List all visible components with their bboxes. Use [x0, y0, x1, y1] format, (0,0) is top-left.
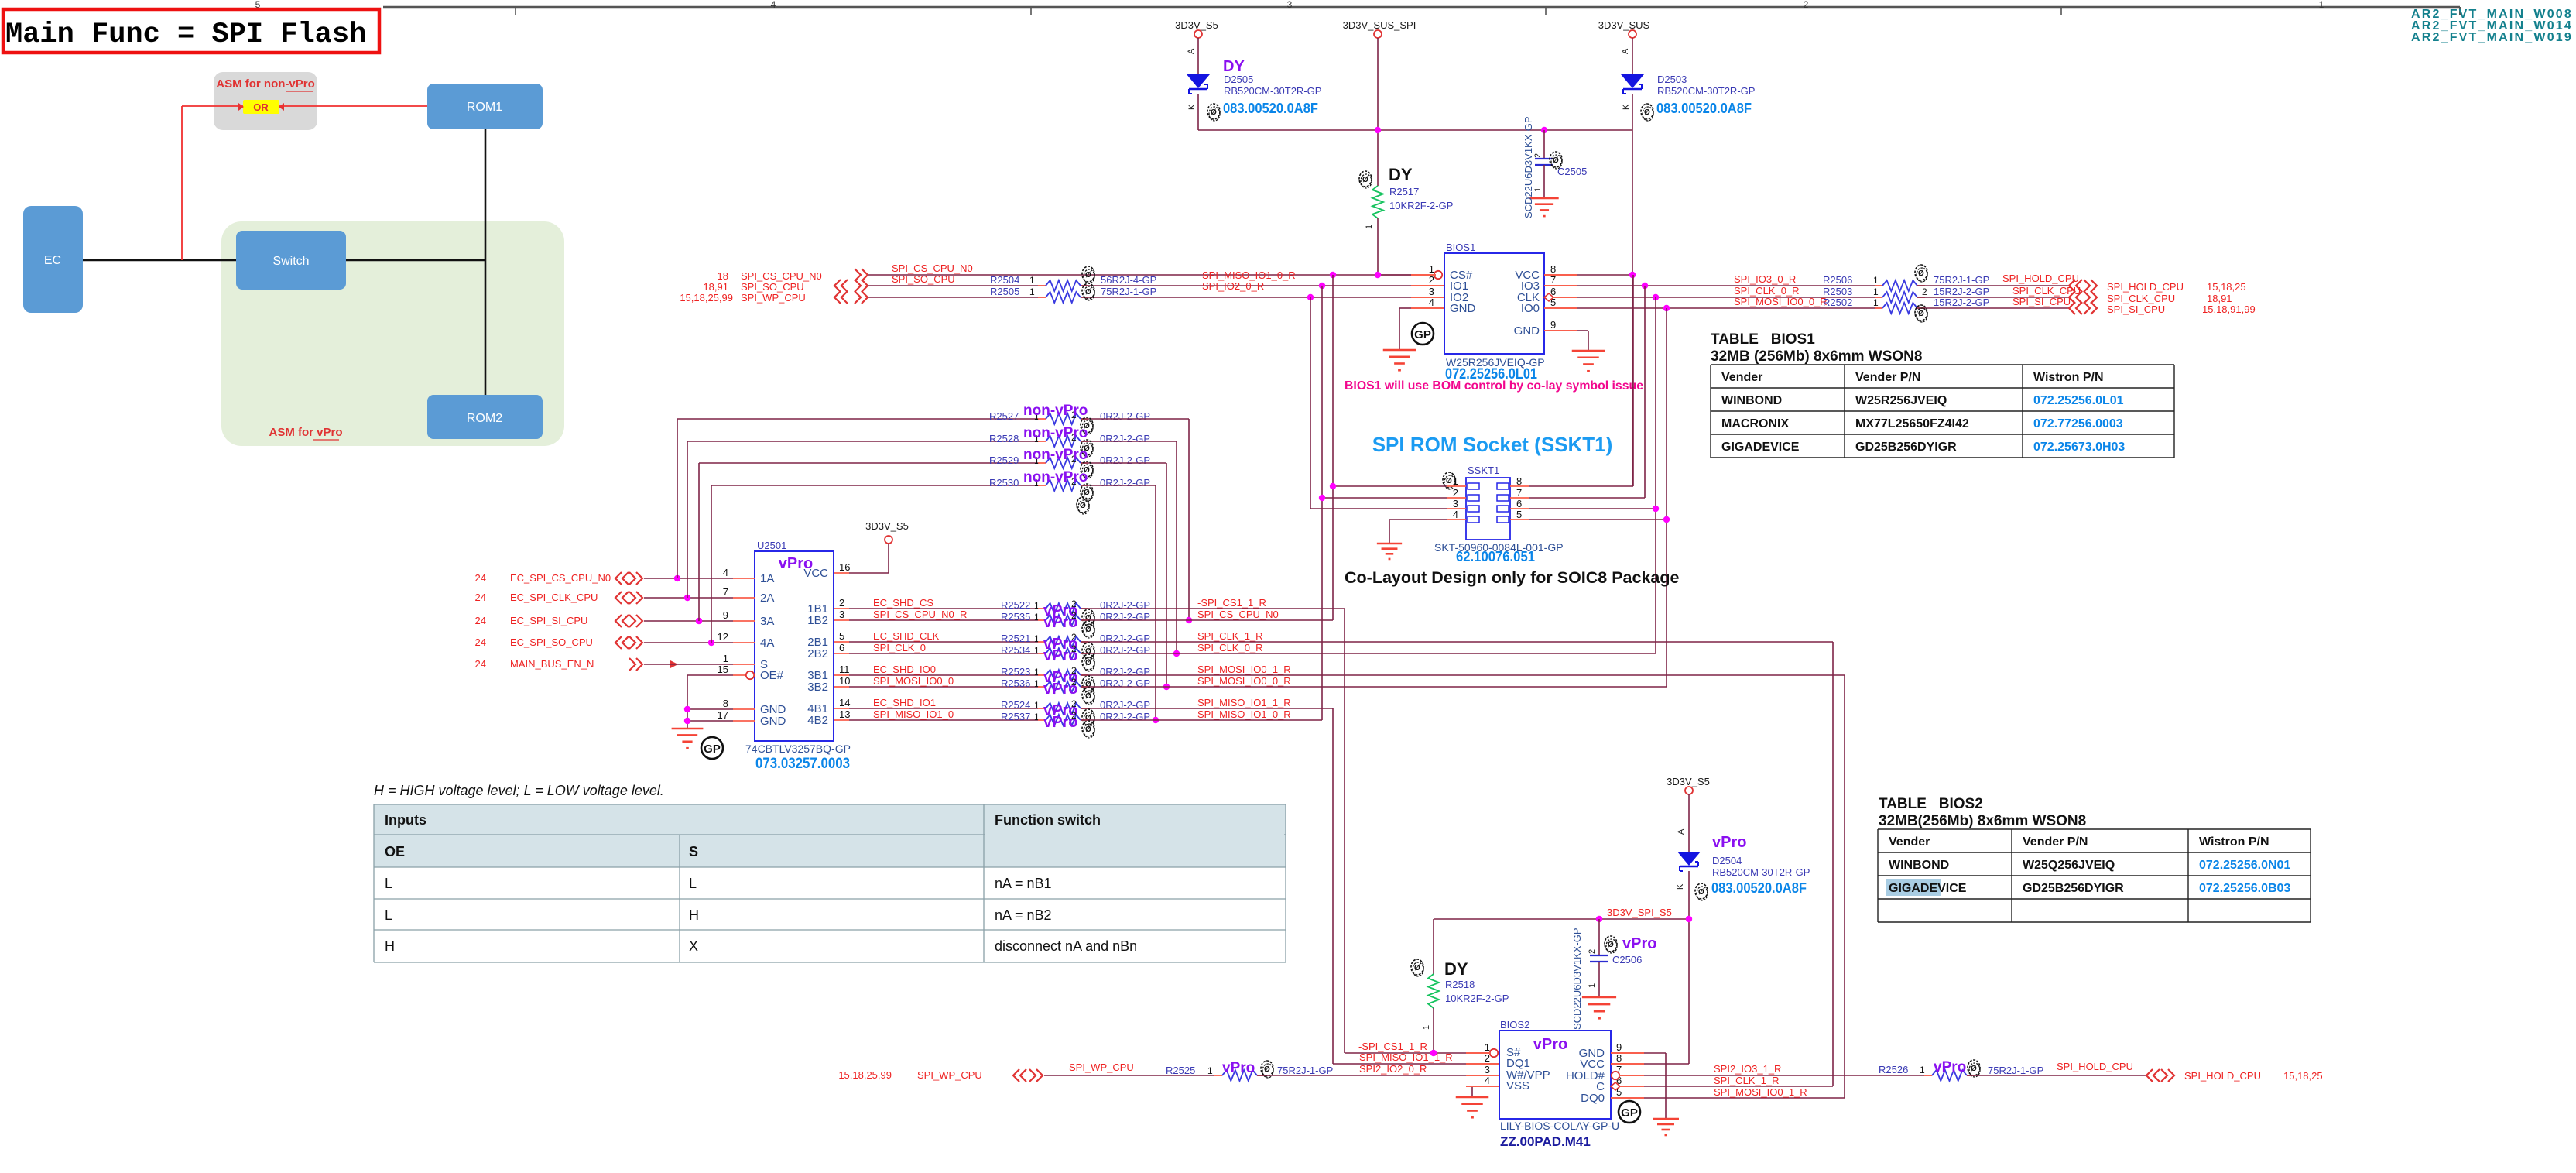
svg-text:R2525: R2525 [1166, 1065, 1195, 1076]
svg-text:Ø: Ø [1264, 1065, 1270, 1074]
svg-text:Vender: Vender [1721, 371, 1762, 384]
svg-text:EC_SHD_IO1: EC_SHD_IO1 [873, 697, 936, 708]
svg-text:072.25256.0L01: 072.25256.0L01 [2033, 394, 2124, 407]
svg-text:SPI_HOLD_CPU: SPI_HOLD_CPU [2107, 281, 2184, 293]
svg-text:SSKT1: SSKT1 [1468, 465, 1499, 476]
svg-text:24: 24 [475, 615, 486, 626]
svg-text:nA = nB2: nA = nB2 [995, 907, 1052, 923]
svg-text:9: 9 [1616, 1041, 1622, 1053]
svg-text:SPI ROM Socket (SSKT1): SPI ROM Socket (SSKT1) [1372, 433, 1613, 456]
svg-text:15,18,25: 15,18,25 [2283, 1070, 2323, 1082]
svg-text:OE: OE [385, 844, 405, 859]
svg-text:VSS: VSS [1506, 1079, 1529, 1092]
svg-text:Ø: Ø [1362, 176, 1368, 184]
svg-text:15,18,25: 15,18,25 [2207, 281, 2246, 293]
svg-text:H: H [385, 938, 395, 954]
svg-text:SPI_SI_CPU: SPI_SI_CPU [2012, 296, 2071, 307]
svg-text:non-vPro: non-vPro [1023, 447, 1088, 463]
svg-text:8: 8 [723, 698, 728, 709]
svg-text:SPI_CLK_0: SPI_CLK_0 [873, 642, 926, 653]
svg-text:BIOS1: BIOS1 [1446, 242, 1475, 253]
svg-text:R2534: R2534 [1001, 644, 1030, 656]
svg-text:R2537: R2537 [1001, 711, 1030, 722]
svg-text:R2521: R2521 [1001, 633, 1030, 644]
svg-text:Co-Layout Design only for SOIC: Co-Layout Design only for SOIC8 Package [1345, 568, 1680, 587]
svg-text:EC: EC [44, 254, 61, 267]
svg-text:2: 2 [1922, 286, 1927, 297]
svg-text:vPro: vPro [1043, 614, 1077, 631]
svg-text:RB520CM-30T2R-GP: RB520CM-30T2R-GP [1657, 85, 1755, 97]
svg-text:15: 15 [718, 664, 728, 675]
svg-text:4A: 4A [760, 636, 774, 650]
svg-text:D2505: D2505 [1224, 74, 1253, 85]
svg-text:ASM for non-vPro: ASM for non-vPro [216, 77, 315, 91]
svg-text:15R2J-2-GP: 15R2J-2-GP [1934, 297, 1989, 308]
svg-text:Ø: Ø [1084, 489, 1090, 497]
svg-text:6: 6 [1516, 498, 1522, 509]
svg-text:1: 1 [1029, 275, 1035, 286]
svg-text:12: 12 [718, 631, 728, 643]
svg-text:1: 1 [1034, 600, 1040, 611]
svg-text:10: 10 [839, 675, 850, 687]
svg-text:Function switch: Function switch [995, 812, 1101, 828]
svg-text:EC_SPI_CLK_CPU: EC_SPI_CLK_CPU [510, 592, 598, 603]
svg-text:1: 1 [1429, 263, 1434, 275]
svg-text:1: 1 [1034, 700, 1040, 711]
svg-text:Ø: Ø [1553, 156, 1559, 165]
svg-text:nA = nB1: nA = nB1 [995, 876, 1052, 891]
svg-text:0R2J-2-GP: 0R2J-2-GP [1100, 477, 1150, 489]
svg-text:R2535: R2535 [1001, 611, 1030, 623]
svg-text:072.25256.0B03: 072.25256.0B03 [2199, 882, 2290, 895]
svg-text:R2505: R2505 [990, 286, 1019, 297]
svg-text:H = HIGH voltage level; L = LO: H = HIGH voltage level; L = LOW voltage … [374, 783, 664, 798]
svg-text:DQ0: DQ0 [1581, 1092, 1605, 1105]
svg-text:8: 8 [1516, 475, 1522, 487]
svg-text:R2517: R2517 [1389, 186, 1419, 197]
svg-text:C2505: C2505 [1557, 166, 1587, 177]
svg-text:SPI_MOSI_IO0_1_R: SPI_MOSI_IO0_1_R [1197, 664, 1291, 675]
svg-text:1: 1 [1873, 297, 1879, 308]
svg-text:vPro: vPro [1533, 1036, 1567, 1053]
svg-text:K: K [1622, 104, 1631, 110]
svg-text:10KR2F-2-GP: 10KR2F-2-GP [1445, 993, 1509, 1004]
svg-text:SPI2_IO2_0_R: SPI2_IO2_0_R [1359, 1063, 1427, 1075]
svg-text:X: X [689, 938, 698, 954]
svg-text:GD25B256DYIGR: GD25B256DYIGR [2023, 882, 2124, 895]
svg-text:R2536: R2536 [1001, 677, 1030, 689]
svg-text:3A: 3A [760, 615, 774, 628]
svg-text:15,18,25,99: 15,18,25,99 [680, 292, 733, 304]
svg-text:14: 14 [839, 697, 850, 708]
svg-text:SPI_CLK_0_R: SPI_CLK_0_R [1734, 285, 1800, 297]
svg-text:072.77256.0003: 072.77256.0003 [2033, 417, 2123, 430]
svg-text:OE#: OE# [760, 669, 784, 682]
svg-text:2: 2 [1804, 0, 1809, 10]
svg-text:1: 1 [1034, 645, 1040, 656]
svg-text:15,18,25,99: 15,18,25,99 [838, 1069, 892, 1081]
svg-text:OR: OR [253, 101, 269, 113]
svg-text:1: 1 [1365, 225, 1374, 229]
svg-text:Wistron P/N: Wistron P/N [2033, 371, 2104, 384]
svg-text:SPI_MISO_IO1_1_R: SPI_MISO_IO1_1_R [1197, 697, 1291, 708]
svg-text:K: K [1187, 104, 1197, 110]
svg-text:24: 24 [475, 592, 486, 603]
svg-text:vPro: vPro [1622, 935, 1656, 952]
svg-text:Wistron P/N: Wistron P/N [2199, 835, 2269, 849]
svg-text:SPI_SO_CPU: SPI_SO_CPU [741, 281, 804, 293]
svg-text:WINBOND: WINBOND [1889, 859, 1949, 872]
svg-text:R2504: R2504 [990, 274, 1019, 286]
svg-text:EC_SHD_CS: EC_SHD_CS [873, 597, 933, 609]
svg-text:Ø: Ø [1918, 310, 1924, 318]
svg-text:1: 1 [1034, 612, 1040, 623]
svg-text:SPI_MISO_IO1_1_R: SPI_MISO_IO1_1_R [1359, 1051, 1453, 1063]
svg-text:1: 1 [1873, 286, 1879, 297]
svg-text:U2501: U2501 [757, 540, 786, 551]
svg-text:32MB(256Mb) 8x6mm WSON8: 32MB(256Mb) 8x6mm WSON8 [1879, 813, 2086, 829]
svg-text:vPro: vPro [1043, 681, 1077, 698]
svg-text:083.00520.0A8F: 083.00520.0A8F [1711, 880, 1807, 896]
svg-text:1: 1 [723, 653, 728, 664]
svg-text:1: 1 [1873, 275, 1879, 286]
svg-text:3: 3 [1485, 1064, 1490, 1075]
svg-text:SPI_WP_CPU: SPI_WP_CPU [1069, 1062, 1134, 1073]
svg-text:Ø: Ø [1085, 659, 1091, 667]
svg-text:1A: 1A [760, 572, 774, 585]
svg-text:vPro: vPro [1934, 1059, 1966, 1075]
svg-text:7: 7 [1550, 274, 1556, 286]
svg-text:1: 1 [1029, 286, 1035, 297]
svg-text:EC_SHD_IO0: EC_SHD_IO0 [873, 664, 936, 675]
svg-text:H: H [689, 907, 699, 923]
svg-text:3D3V_SPI_S5: 3D3V_SPI_S5 [1607, 907, 1672, 918]
svg-text:10KR2F-2-GP: 10KR2F-2-GP [1389, 200, 1453, 211]
svg-text:disconnect nA and nBn: disconnect nA and nBn [995, 938, 1137, 954]
svg-text:3: 3 [839, 609, 844, 620]
svg-text:16: 16 [839, 561, 850, 573]
svg-text:0R2J-2-GP: 0R2J-2-GP [1100, 454, 1150, 466]
svg-text:Ø: Ø [1211, 108, 1217, 117]
svg-text:62.10076.051: 62.10076.051 [1456, 549, 1535, 564]
svg-text:LILY-BIOS-COLAY-GP-U: LILY-BIOS-COLAY-GP-U [1500, 1120, 1619, 1132]
svg-text:072.25256.0N01: 072.25256.0N01 [2199, 859, 2290, 872]
svg-text:0R2J-2-GP: 0R2J-2-GP [1100, 410, 1150, 422]
svg-text:1: 1 [1422, 1025, 1431, 1030]
svg-text:AR2_FVT_MAIN_W019: AR2_FVT_MAIN_W019 [2411, 31, 2573, 44]
svg-text:GP: GP [1621, 1106, 1638, 1120]
svg-text:24: 24 [475, 572, 486, 584]
svg-text:W25R256JVEIQ: W25R256JVEIQ [1855, 394, 1947, 407]
svg-text:073.03257.0003: 073.03257.0003 [755, 756, 850, 772]
svg-text:R2503: R2503 [1823, 286, 1852, 297]
svg-text:8: 8 [1550, 263, 1556, 275]
svg-text:SCD22U6D3V1KX-GP: SCD22U6D3V1KX-GP [1571, 928, 1583, 1031]
svg-text:3: 3 [1429, 286, 1434, 297]
svg-text:Ø: Ø [1698, 888, 1704, 897]
svg-text:9: 9 [723, 609, 728, 621]
svg-text:Ø: Ø [1085, 626, 1091, 634]
svg-text:75R2J-1-GP: 75R2J-1-GP [1934, 274, 1989, 286]
svg-text:MAIN_BUS_EN_N: MAIN_BUS_EN_N [510, 658, 594, 670]
svg-text:3D3V_S5: 3D3V_S5 [865, 520, 909, 532]
svg-text:4: 4 [1485, 1075, 1490, 1086]
svg-text:Inputs: Inputs [385, 812, 426, 828]
svg-text:5: 5 [839, 630, 844, 642]
svg-text:18: 18 [718, 270, 728, 282]
svg-text:083.00520.0A8F: 083.00520.0A8F [1223, 101, 1318, 116]
svg-text:0R2J-2-GP: 0R2J-2-GP [1100, 433, 1150, 444]
svg-text:IO0: IO0 [1521, 302, 1540, 315]
svg-text:SPI_SI_CPU: SPI_SI_CPU [2107, 304, 2165, 315]
svg-text:GIGADEVICE: GIGADEVICE [1721, 441, 1800, 454]
svg-text:SPI_MOSI_IO0_1_R: SPI_MOSI_IO0_1_R [1714, 1086, 1807, 1098]
svg-text:32MB (256Mb) 8x6mm WSON8: 32MB (256Mb) 8x6mm WSON8 [1711, 348, 1922, 365]
svg-text:3D3V_S5: 3D3V_S5 [1175, 19, 1218, 31]
svg-text:8: 8 [1616, 1052, 1622, 1064]
svg-text:SPI_MOSI_IO0_0_R: SPI_MOSI_IO0_0_R [1197, 675, 1291, 687]
svg-text:RB520CM-30T2R-GP: RB520CM-30T2R-GP [1712, 866, 1810, 878]
svg-text:24: 24 [475, 636, 486, 648]
svg-text:A: A [1677, 828, 1686, 835]
svg-text:R2506: R2506 [1823, 274, 1852, 286]
svg-text:C2506: C2506 [1612, 954, 1642, 965]
svg-text:TABLE BIOS2: TABLE BIOS2 [1879, 796, 1983, 812]
svg-text:2: 2 [839, 597, 844, 609]
svg-text:24: 24 [475, 658, 486, 670]
svg-text:1: 1 [1034, 667, 1040, 677]
svg-text:74CBTLV3257BQ-GP: 74CBTLV3257BQ-GP [745, 743, 851, 755]
svg-text:RB520CM-30T2R-GP: RB520CM-30T2R-GP [1224, 85, 1321, 97]
svg-text:SPI_SO_CPU: SPI_SO_CPU [892, 273, 955, 285]
svg-text:R2502: R2502 [1823, 297, 1852, 308]
svg-text:GP: GP [704, 743, 721, 756]
svg-text:Ø: Ø [1446, 477, 1452, 485]
svg-text:18,91: 18,91 [2207, 293, 2232, 304]
svg-text:2: 2 [1533, 153, 1543, 158]
svg-text:5: 5 [1516, 509, 1522, 520]
svg-text:9: 9 [1550, 319, 1556, 331]
svg-text:3B2: 3B2 [807, 681, 828, 694]
svg-text:SPI_CS_CPU_N0: SPI_CS_CPU_N0 [1197, 609, 1279, 620]
svg-text:GND: GND [1450, 302, 1476, 315]
svg-text:EC_SPI_CS_CPU_N0: EC_SPI_CS_CPU_N0 [510, 572, 611, 584]
svg-text:4B2: 4B2 [807, 714, 828, 727]
svg-text:75R2J-1-GP: 75R2J-1-GP [1988, 1065, 2043, 1076]
svg-text:3D3V_S5: 3D3V_S5 [1667, 776, 1710, 787]
svg-text:2: 2 [1453, 487, 1458, 499]
svg-text:15,18,91,99: 15,18,91,99 [2202, 304, 2256, 315]
svg-text:2: 2 [1588, 949, 1597, 954]
svg-text:SPI_CS_CPU_N0: SPI_CS_CPU_N0 [892, 262, 973, 274]
svg-text:Vender P/N: Vender P/N [1855, 371, 1920, 384]
svg-text:Ø: Ø [1971, 1065, 1977, 1073]
svg-text:15R2J-2-GP: 15R2J-2-GP [1934, 286, 1989, 297]
svg-text:SPI_CS_CPU_N0: SPI_CS_CPU_N0 [741, 270, 822, 282]
svg-text:Ø: Ø [1608, 941, 1614, 949]
svg-text:SPI_CLK_1_R: SPI_CLK_1_R [1197, 630, 1263, 642]
svg-text:SPI_MISO_IO1_0_R: SPI_MISO_IO1_0_R [1202, 269, 1296, 281]
svg-text:R2528: R2528 [989, 433, 1019, 444]
svg-text:1: 1 [2319, 0, 2324, 10]
svg-text:2: 2 [1485, 1052, 1490, 1064]
svg-text:vPro: vPro [1222, 1060, 1255, 1076]
svg-text:L: L [385, 876, 392, 891]
svg-text:DY: DY [1444, 959, 1468, 979]
svg-text:3: 3 [1287, 0, 1293, 10]
svg-text:EC_SPI_SO_CPU: EC_SPI_SO_CPU [510, 636, 593, 648]
svg-text:SPI_IO3_0_R: SPI_IO3_0_R [1734, 273, 1796, 285]
svg-text:2: 2 [1429, 274, 1434, 286]
svg-text:Ø: Ø [1918, 269, 1924, 278]
svg-text:R2524: R2524 [1001, 699, 1030, 711]
svg-text:Vender P/N: Vender P/N [2023, 835, 2088, 849]
svg-text:ZZ.00PAD.M41: ZZ.00PAD.M41 [1500, 1134, 1591, 1149]
svg-text:SPI_CLK_1_R: SPI_CLK_1_R [1714, 1075, 1780, 1086]
svg-text:SPI_WP_CPU: SPI_WP_CPU [917, 1069, 982, 1081]
svg-text:HOLD#: HOLD# [1566, 1069, 1605, 1082]
svg-text:SPI_MOSI_IO0_0: SPI_MOSI_IO0_0 [873, 675, 954, 687]
svg-text:56R2J-4-GP: 56R2J-4-GP [1101, 274, 1156, 286]
svg-text:R2518: R2518 [1445, 979, 1475, 990]
svg-text:DY: DY [1223, 58, 1245, 75]
svg-text:Main Func = SPI Flash: Main Func = SPI Flash [5, 19, 366, 51]
svg-text:BIOS2: BIOS2 [1500, 1019, 1529, 1031]
svg-text:3D3V_SUS: 3D3V_SUS [1598, 19, 1650, 31]
svg-text:SPI_CLK_CPU: SPI_CLK_CPU [2107, 293, 2175, 304]
svg-text:GP: GP [1414, 328, 1431, 341]
svg-text:D2503: D2503 [1657, 74, 1687, 85]
svg-text:R2523: R2523 [1001, 666, 1030, 677]
svg-text:2A: 2A [760, 592, 774, 605]
svg-text:GND: GND [1514, 324, 1540, 338]
svg-text:SCD22U6D3V1KX-GP: SCD22U6D3V1KX-GP [1523, 117, 1534, 219]
svg-text:7: 7 [723, 586, 728, 598]
svg-text:11: 11 [839, 664, 850, 675]
svg-text:non-vPro: non-vPro [1023, 469, 1088, 485]
svg-text:TABLE BIOS1: TABLE BIOS1 [1711, 331, 1815, 348]
svg-text:4: 4 [771, 0, 776, 10]
svg-text:75R2J-1-GP: 75R2J-1-GP [1277, 1065, 1333, 1076]
svg-text:Ø: Ø [1085, 288, 1091, 297]
svg-text:3: 3 [1453, 498, 1458, 509]
svg-text:SPI_HOLD_CPU: SPI_HOLD_CPU [2002, 273, 2079, 284]
svg-text:MACRONIX: MACRONIX [1721, 417, 1789, 430]
svg-text:1B2: 1B2 [807, 614, 828, 627]
svg-text:SPI_CS_CPU_N0_R: SPI_CS_CPU_N0_R [873, 609, 967, 620]
svg-text:13: 13 [839, 708, 850, 720]
svg-text:GD25B256DYIGR: GD25B256DYIGR [1855, 441, 1957, 454]
svg-text:1: 1 [1453, 475, 1458, 487]
svg-text:GIGADEVICE: GIGADEVICE [1889, 882, 1967, 895]
svg-text:vPro: vPro [1712, 834, 1746, 851]
svg-text:7: 7 [1516, 487, 1522, 499]
svg-text:1: 1 [1533, 187, 1543, 192]
svg-text:non-vPro: non-vPro [1023, 403, 1088, 419]
svg-text:R2529: R2529 [989, 454, 1019, 466]
svg-text:ROM1: ROM1 [467, 101, 502, 114]
svg-text:SPI_WP_CPU: SPI_WP_CPU [741, 292, 806, 304]
svg-text:A: A [1187, 48, 1196, 54]
svg-text:WINBOND: WINBOND [1721, 394, 1782, 407]
svg-text:SPI_MISO_IO1_0_R: SPI_MISO_IO1_0_R [1197, 708, 1291, 720]
svg-text:BIOS1 will use BOM control by: BIOS1 will use BOM control by co-lay sym… [1345, 379, 1643, 393]
svg-text:-SPI_CS1_1_R: -SPI_CS1_1_R [1358, 1041, 1427, 1052]
svg-text:Ø: Ø [1644, 108, 1650, 117]
svg-text:6: 6 [839, 642, 844, 653]
svg-text:1: 1 [1588, 983, 1597, 988]
svg-text:SPI2_IO3_1_R: SPI2_IO3_1_R [1714, 1063, 1781, 1075]
svg-text:SPI_IO2_0_R: SPI_IO2_0_R [1202, 280, 1264, 292]
svg-text:vPro: vPro [1043, 714, 1077, 731]
svg-text:3D3V_SUS_SPI: 3D3V_SUS_SPI [1343, 19, 1416, 31]
svg-text:Vender: Vender [1889, 835, 1930, 849]
svg-text:SPI_MISO_IO1_0: SPI_MISO_IO1_0 [873, 708, 954, 720]
svg-text:072.25673.0H03: 072.25673.0H03 [2033, 441, 2125, 454]
svg-text:R2526: R2526 [1879, 1064, 1908, 1075]
svg-text:MX77L25650FZ4I42: MX77L25650FZ4I42 [1855, 417, 1969, 430]
svg-text:EC_SPI_SI_CPU: EC_SPI_SI_CPU [510, 615, 587, 626]
svg-text:Ø: Ø [1080, 502, 1086, 510]
svg-text:vPro: vPro [1043, 647, 1077, 664]
svg-text:K: K [1676, 883, 1685, 890]
svg-text:4: 4 [1429, 297, 1434, 308]
svg-text:GND: GND [760, 715, 786, 728]
svg-text:1: 1 [1034, 712, 1040, 722]
svg-text:W25Q256JVEIQ: W25Q256JVEIQ [2023, 859, 2115, 872]
svg-text:083.00520.0A8F: 083.00520.0A8F [1656, 101, 1752, 116]
svg-text:L: L [689, 876, 697, 891]
svg-text:4: 4 [1453, 509, 1458, 520]
svg-text:D2504: D2504 [1712, 855, 1742, 866]
svg-text:1: 1 [1034, 633, 1040, 644]
svg-text:2B2: 2B2 [807, 647, 828, 660]
svg-text:1: 1 [1207, 1065, 1213, 1076]
svg-text:Switch: Switch [272, 255, 309, 268]
svg-text:17: 17 [718, 709, 728, 721]
svg-text:1: 1 [1920, 1065, 1925, 1075]
svg-text:1: 1 [1485, 1041, 1490, 1053]
svg-text:R2527: R2527 [989, 410, 1019, 422]
svg-text:ROM2: ROM2 [467, 412, 502, 425]
svg-text:VCC: VCC [803, 567, 828, 580]
svg-text:ASM for vPro: ASM for vPro [269, 426, 342, 439]
svg-text:SPI_CLK_0_R: SPI_CLK_0_R [1197, 642, 1263, 653]
svg-text:1: 1 [1034, 678, 1040, 689]
svg-text:75R2J-1-GP: 75R2J-1-GP [1101, 286, 1156, 297]
svg-text:4: 4 [723, 567, 728, 578]
svg-text:Ø: Ø [1414, 964, 1420, 972]
svg-text:non-vPro: non-vPro [1023, 425, 1088, 441]
svg-text:SPI_HOLD_CPU: SPI_HOLD_CPU [2184, 1070, 2261, 1082]
svg-text:R2522: R2522 [1001, 599, 1030, 611]
svg-text:SPI_MOSI_IO0_0_R: SPI_MOSI_IO0_0_R [1734, 296, 1828, 307]
svg-text:18,91: 18,91 [703, 281, 728, 293]
svg-text:Ø: Ø [1085, 692, 1091, 701]
svg-text:EC_SHD_CLK: EC_SHD_CLK [873, 630, 940, 642]
svg-text:Ø: Ø [1085, 271, 1091, 280]
svg-text:SPI_HOLD_CPU: SPI_HOLD_CPU [2057, 1061, 2133, 1072]
svg-text:R2530: R2530 [989, 477, 1019, 489]
svg-text:L: L [385, 907, 392, 923]
svg-text:DY: DY [1389, 165, 1413, 184]
svg-text:Ø: Ø [1085, 725, 1091, 734]
svg-text:A: A [1621, 48, 1630, 54]
svg-text:S: S [689, 844, 698, 859]
svg-text:-SPI_CS1_1_R: -SPI_CS1_1_R [1197, 597, 1266, 609]
